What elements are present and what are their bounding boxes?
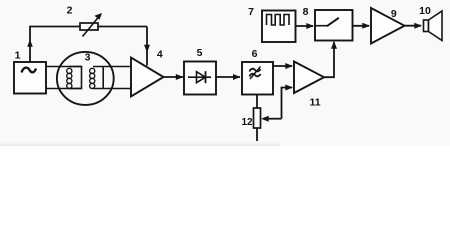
wire box1 to transformer primary bottom <box>46 88 82 90</box>
wire pulse generator 7 to gate 8 <box>296 25 314 27</box>
wire detector 5 to filter 6 <box>216 76 240 78</box>
wire top rail left segment <box>29 26 80 28</box>
secondary coil bracket <box>93 67 103 89</box>
svg-text:10: 10 <box>419 5 431 17</box>
svg-text:9: 9 <box>391 8 397 20</box>
wire amp 11 output up to gate 8 <box>324 42 334 77</box>
secondary coil loops <box>90 68 95 73</box>
wire below potentiometer <box>256 128 258 141</box>
filter box 6 <box>242 62 273 95</box>
primary coil loops <box>67 68 72 73</box>
switch symbol in box 8 <box>315 25 329 27</box>
wire box1 to transformer primary top <box>46 66 82 68</box>
primary coil bracket <box>70 67 82 89</box>
svg-text:11: 11 <box>309 97 320 109</box>
square wave symbol in box 7 <box>267 15 290 26</box>
wire secondary top to amplifier 4 <box>103 66 131 68</box>
amplifier 4 triangle <box>131 58 164 97</box>
svg-text:3: 3 <box>85 52 91 64</box>
svg-text:4: 4 <box>157 49 163 61</box>
wire secondary bottom to amplifier 4 <box>103 88 131 90</box>
wire amp4 to detector 5 <box>164 76 184 78</box>
diode symbol in box 5 <box>188 76 211 78</box>
svg-text:8: 8 <box>303 6 309 18</box>
amplifier 11 triangle <box>294 62 324 94</box>
pulse generator box 7 <box>262 11 296 43</box>
wire top rail right segment <box>98 26 147 28</box>
detector box 5 <box>184 62 216 95</box>
arrowhead up on vertical wire <box>27 40 33 47</box>
loudspeaker 10 <box>424 20 429 32</box>
wire amplifier 9 to loudspeaker 10 <box>405 25 422 27</box>
svg-text:2: 2 <box>67 5 73 17</box>
wire wiper up to amplifier 11 bottom input <box>282 88 293 119</box>
amplifier 9 triangle <box>371 8 405 44</box>
svg-text:6: 6 <box>252 48 258 60</box>
gate box 8 <box>315 10 353 41</box>
generator box 1 <box>14 62 46 94</box>
AC tilde symbol in box 1 <box>22 68 37 73</box>
svg-text:1: 1 <box>15 50 21 62</box>
svg-text:7: 7 <box>248 6 254 18</box>
variable attenuator R2 diagonal arrow <box>83 17 100 37</box>
wire filter 6 to amplifier 11 top input <box>273 65 292 67</box>
variable attenuator R2 body <box>80 23 98 30</box>
wire filter 6 down to potentiometer 12 <box>256 95 258 109</box>
potentiometer 12 body <box>254 108 261 128</box>
svg-text:12: 12 <box>241 117 253 128</box>
transformer circle 3 <box>57 52 114 105</box>
wire from source box 1 up to top rail <box>29 27 31 63</box>
wire gate 8 to amplifier 9 <box>353 25 370 27</box>
filter symbol tildes with slash <box>250 69 261 72</box>
svg-text:5: 5 <box>197 47 203 59</box>
potentiometer wiper arrow <box>261 116 269 122</box>
arrowhead down into amplifier 4 <box>144 45 150 53</box>
wire down into amplifier 4 <box>146 27 148 66</box>
